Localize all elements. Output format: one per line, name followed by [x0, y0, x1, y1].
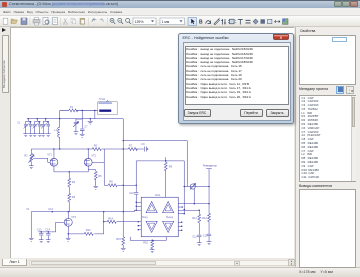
wire from R1 node down — [81, 110, 83, 128]
capacitor C10 — [134, 193, 138, 195]
resistor R13 — [84, 232, 93, 235]
ground gnd5 — [74, 132, 79, 135]
zoom-fit icon — [126, 18, 130, 22]
ground gnd9 — [29, 238, 34, 241]
capacitor C7 — [80, 129, 84, 134]
wire W6 lower rail — [31, 211, 123, 213]
junction bottom loop — [152, 240, 153, 241]
resistor R3 — [68, 172, 71, 193]
svg-text:R5: R5 — [98, 174, 102, 178]
ground gnd8 — [93, 186, 98, 189]
new doc icon — [3, 18, 8, 24]
resistor R11 column — [198, 210, 201, 235]
wire pin A right — [178, 203, 209, 205]
wire U1 bottom loop — [130, 237, 166, 241]
junction Q1 drain — [53, 148, 54, 149]
zoom-out icon — [118, 18, 122, 22]
junction W4-L1 — [59, 148, 60, 149]
ERC dialog — [178, 33, 294, 124]
capacitor C11 — [197, 235, 201, 243]
wire Q4 out rail — [68, 212, 104, 234]
junction J-R1 — [82, 110, 83, 111]
op-amp U1.1 — [146, 202, 157, 213]
capacitor C6 trimmer — [73, 119, 78, 132]
save icon — [21, 18, 27, 25]
open folder icon — [11, 19, 18, 24]
svg-text:DA1: DA1 — [155, 193, 161, 197]
capacitor C1 group branch1 — [24, 119, 33, 134]
capacitor C2 group branch2 — [33, 119, 42, 134]
ground gnd1b — [28, 134, 33, 137]
junction B1-rect — [123, 140, 124, 141]
ground gnd10 — [66, 238, 71, 241]
zoom-in icon — [110, 18, 114, 22]
op-amp U1.4 — [163, 221, 174, 232]
op-amp U1 box — [141, 193, 178, 237]
svg-text:Вход: Вход — [142, 217, 148, 219]
svg-text:VT3: VT3 — [71, 215, 76, 219]
wire W6 left end down — [30, 212, 32, 239]
junction inner-W5 — [136, 185, 137, 186]
svg-text:R12: R12 — [202, 216, 207, 220]
capacitor C13 — [39, 232, 43, 240]
svg-text:VT2: VT2 — [91, 154, 96, 158]
svg-text:C12: C12 — [48, 207, 53, 211]
svg-text:R15: R15 — [116, 237, 121, 241]
svg-text:VT1: VT1 — [47, 153, 52, 157]
ground gnd4 — [80, 134, 85, 137]
wire pin B right — [178, 206, 182, 208]
ground gnd13 — [121, 248, 126, 251]
wire pin D right — [178, 213, 184, 215]
svg-text:R3: R3 — [72, 180, 76, 184]
ground gnd3a — [41, 134, 46, 137]
svg-text:C11: C11 — [192, 235, 197, 239]
wire RP1 wiper to Q1 gate — [33, 158, 50, 162]
ground gnd11 — [39, 240, 44, 243]
wire inner right vertical — [183, 161, 185, 214]
svg-text:R11: R11 — [192, 216, 197, 220]
svg-text:R14: R14 — [108, 217, 113, 221]
svg-text:C7: C7 — [84, 125, 88, 129]
svg-text:C14: C14 — [45, 227, 50, 231]
right panel — [295, 27, 360, 267]
junction W1-L1 — [59, 118, 60, 119]
svg-text:C1: C1 — [17, 122, 21, 125]
svg-text:Генератор: Генератор — [203, 164, 217, 168]
canvas — [10, 27, 294, 258]
junction Q2 drain — [88, 148, 89, 149]
svg-text:R6: R6 — [94, 144, 98, 148]
undo icon — [92, 18, 96, 22]
op-amp U1.3 — [146, 221, 157, 232]
svg-text:R8: R8 — [109, 180, 113, 184]
junction W6 x103 — [103, 211, 104, 212]
copy icon — [71, 18, 74, 22]
bottom tab bar — [0, 258, 295, 267]
capacitor C3 group branch3 — [41, 119, 50, 134]
junction B1-W4 — [123, 148, 124, 149]
print icon — [33, 20, 40, 24]
wire W5 — [104, 184, 136, 186]
junction J-box — [94, 110, 95, 111]
menu bar — [0, 8, 360, 16]
svg-text:C10: C10 — [129, 191, 134, 195]
wire outer loop top — [123, 141, 187, 187]
svg-text:C15: C15 — [203, 234, 208, 238]
pin stubs U1 right lower — [178, 222, 182, 230]
wire source link — [54, 171, 88, 173]
ground gnd16 — [207, 242, 212, 245]
node Генератор port — [203, 164, 217, 204]
svg-text:Выход: Выход — [166, 217, 174, 219]
transistor Q3 — [184, 183, 210, 189]
wire inner left vertical — [135, 161, 137, 210]
resistor R7 on W4 — [128, 148, 137, 151]
junction source link — [69, 171, 70, 172]
junction W1-b1 — [28, 118, 29, 119]
wire W1 top rail — [27, 118, 123, 120]
capacitor C9 series — [144, 147, 146, 152]
junction W1-b2 — [37, 118, 38, 119]
op-amp U1.2 — [163, 202, 174, 213]
junction inner-right taps — [184, 209, 185, 210]
svg-text:R9: R9 — [169, 165, 173, 169]
pin stubs U1 left upper — [123, 202, 141, 212]
wire stub to trimmer — [76, 118, 82, 120]
svg-text:X1: X1 — [26, 208, 30, 211]
svg-text:R7: R7 — [129, 144, 133, 148]
wire inner loop top — [136, 160, 184, 162]
ground gnd6 — [88, 119, 93, 124]
pin stubs U1 left lower — [138, 222, 141, 230]
page icon — [53, 18, 58, 25]
svg-text:C13: C13 — [37, 227, 42, 231]
cut icon — [64, 19, 67, 24]
ground gnd14 — [150, 250, 155, 253]
title bar — [0, 0, 360, 8]
ground gnd1a — [23, 134, 28, 137]
preview icon — [43, 18, 48, 25]
redo icon (grey) — [99, 18, 103, 22]
resistor R4b source chain — [88, 170, 97, 187]
transistor Q4 — [64, 212, 76, 239]
junction W1-b3 — [45, 118, 46, 119]
svg-text:R4: R4 — [72, 195, 76, 199]
ground gnd3b — [46, 134, 51, 137]
capacitor C15 — [207, 234, 211, 242]
ground gnd12 — [46, 240, 51, 243]
svg-text:L1: L1 — [54, 128, 57, 132]
svg-text:R13: R13 — [86, 228, 91, 232]
resistor R1 — [69, 109, 78, 112]
zoom combo — [133, 18, 156, 25]
wire W2 upper rail — [60, 110, 98, 118]
wire Q4 gate chain — [38, 222, 64, 232]
junction W6 x52 — [52, 211, 53, 212]
wire Q3 emitter down — [193, 189, 195, 204]
svg-text:C9: C9 — [141, 142, 145, 146]
resistor R12 column — [208, 204, 211, 234]
ground gnd2b — [37, 134, 42, 137]
grid combo — [160, 18, 185, 25]
toolbar — [0, 16, 360, 27]
resistor R14 — [107, 220, 116, 223]
wire Q2 gate2 to W4 — [92, 149, 104, 185]
bus B1 vertical — [122, 119, 124, 237]
generator G1 selected box — [98, 97, 118, 115]
transistor Q2 — [84, 149, 96, 172]
junction C9 end — [147, 148, 148, 149]
junction J-gnd90 — [90, 118, 91, 119]
left strip — [0, 27, 10, 258]
paste icon — [80, 18, 85, 24]
junction Q4 drain — [68, 211, 69, 212]
ground gnd2a — [32, 134, 37, 137]
svg-text:R2: R2 — [24, 154, 28, 158]
wire pin C right — [178, 209, 199, 211]
wire W4 mid rail — [31, 148, 147, 150]
select tool (pressed) — [188, 17, 197, 25]
ground gnd15 — [197, 243, 202, 246]
resistor R6 on W4 — [92, 148, 101, 151]
capacitor C14 — [46, 232, 50, 240]
junction Q4 source tap — [68, 233, 69, 234]
junction B1-W6 — [123, 211, 124, 212]
ground gnd7 — [29, 166, 34, 169]
resistor R9 to opamp top — [164, 157, 167, 197]
resistor R8 on W5 — [108, 184, 117, 187]
transistor Q1 — [47, 149, 58, 172]
svg-text:ГУН1: ГУН1 — [99, 97, 106, 101]
status bar — [0, 267, 360, 277]
resistor R4 — [68, 193, 71, 212]
svg-text:R1: R1 — [70, 105, 74, 109]
wire R14 chain to U1 — [104, 221, 139, 223]
resistor R16 below U1 — [151, 240, 154, 250]
svg-text:R16: R16 — [143, 241, 148, 245]
potentiometer RP1 — [24, 149, 34, 166]
junction B1-W5 — [123, 185, 124, 186]
resistor R10 on bus bottom — [122, 237, 125, 249]
wire box drop — [94, 110, 96, 118]
inductor L1 — [54, 119, 60, 149]
